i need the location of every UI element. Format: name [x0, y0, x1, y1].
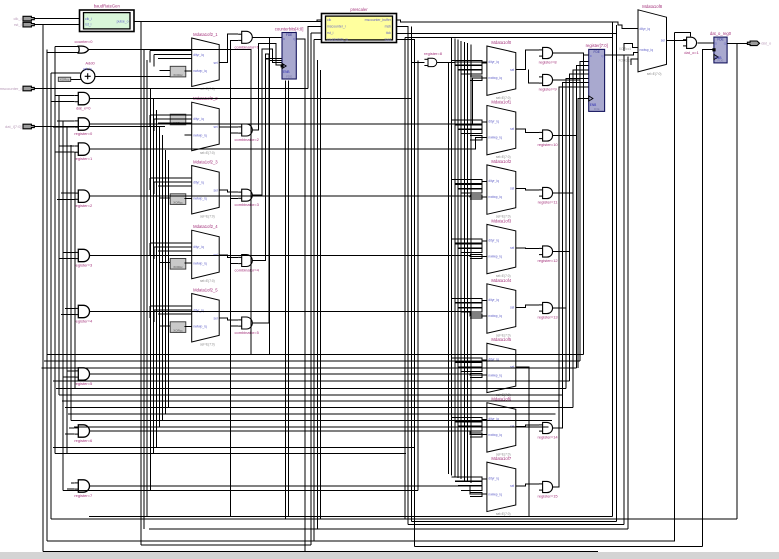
wire register=4 out to mux: [89, 312, 487, 316]
wire mux M12 in1 staple 0: [452, 417, 482, 421]
svg-text:Mdata1of8: Mdata1of8: [642, 4, 662, 9]
wire mscounter to prescaler: [308, 26, 322, 88]
mux M3 Mdata1of2_3: [192, 160, 220, 219]
svg-text:tick: tick: [386, 31, 391, 35]
svg-text:dityr_iq: dityr_iq: [193, 117, 204, 121]
wire v702: [702, 49, 704, 547]
wire register=1 out to mux: [89, 137, 487, 149]
wire counter=0 in2: [47, 52, 78, 54]
svg-text:counterbits_w: counterbits_w: [327, 38, 348, 42]
and-gate register=8 middle: [424, 51, 443, 67]
svg-text:msb: msb: [385, 25, 392, 29]
wire bundle v147: [146, 60, 148, 517]
svg-text:register=5: register=5: [74, 381, 93, 386]
wire mux M9 in1 staple 2: [458, 249, 482, 253]
svg-text:sel=E(7:0): sel=E(7:0): [200, 214, 215, 218]
wire v288: [288, 81, 290, 517]
svg-text:sel=E(7:0): sel=E(7:0): [200, 279, 215, 283]
wire feedback bus v5: [463, 42, 465, 481]
svg-text:FDE: FDE: [286, 33, 292, 37]
svg-text:sel: sel: [510, 127, 514, 131]
wire feedback y395: [59, 394, 563, 396]
svg-text:Mdata1of2_3: Mdata1of2_3: [193, 160, 218, 165]
wire mux M1 tap v2: [153, 55, 155, 67]
wire mux M8 in1 staple 0: [452, 180, 482, 184]
wire trmux out: [667, 39, 687, 41]
wire bundle v165: [165, 150, 167, 414]
svg-text:nwlwp_iq: nwlwp_iq: [193, 197, 207, 201]
wire prescaler rst pin: [311, 32, 322, 34]
svg-text:mscounter_buffer: mscounter_buffer: [365, 18, 392, 22]
wire mux M2 in1 c: [158, 122, 192, 124]
wire combinator 1 out to counterbits D1: [252, 44, 281, 130]
wire mux M1 in1 b: [154, 54, 192, 56]
wire mux M1 cbox: [185, 70, 192, 72]
wire mux M2 out b: [231, 130, 239, 133]
wire mux M2 tap v1: [149, 115, 151, 127]
svg-text:XORcc: XORcc: [173, 265, 183, 269]
wire mux M12 in1 staple 2: [458, 427, 482, 431]
wire mux M5 cbox feed: [160, 325, 171, 327]
wire mux M8 in1 staple 1: [455, 184, 482, 188]
svg-text:sel: sel: [213, 61, 217, 65]
svg-text:counter=0: counter=0: [75, 39, 94, 44]
svg-text:dat_i[7:0]: dat_i[7:0]: [5, 124, 21, 129]
svg-text:Add0: Add0: [85, 61, 95, 66]
svg-text:dityr_iq: dityr_iq: [640, 27, 651, 31]
svg-text:register=6: register=6: [74, 438, 93, 443]
wire bottom 516: [89, 516, 613, 518]
wire register=4 in2: [61, 314, 75, 316]
wire vbus 51: [50, 73, 52, 519]
svg-text:sel=E(7:0): sel=E(7:0): [496, 512, 511, 516]
svg-text:dat_o=1: dat_o=1: [684, 50, 699, 55]
wire mux M6 out b: [529, 70, 540, 84]
wire bottom 551: [43, 551, 598, 553]
mux M11 Mdata1of5: [487, 337, 516, 397]
wire vbus 67: [66, 127, 68, 454]
svg-text:qnt_in: qnt_in: [83, 67, 92, 71]
svg-text:Mdata1of2_4: Mdata1of2_4: [193, 224, 218, 229]
wire bottom 540: [47, 540, 675, 542]
wire feedback bus v7: [470, 44, 472, 483]
svg-text:dityr_iq: dityr_iq: [193, 53, 204, 57]
svg-text:prescaler: prescaler: [350, 7, 368, 12]
svg-text:Mdata1of1: Mdata1of1: [491, 100, 511, 105]
svg-text:Mdata1of2: Mdata1of2: [491, 159, 511, 164]
wire v285: [285, 81, 287, 519]
wire v411: [410, 26, 412, 521]
svg-text:nwlwp_iq: nwlwp_iq: [193, 325, 207, 329]
svg-text:rst_i: rst_i: [327, 31, 334, 35]
wire feedback y354: [47, 354, 584, 356]
and-gate register=0: [74, 118, 93, 136]
and-gate combinator=2: [235, 124, 260, 142]
svg-text:nwlwp_iq: nwlwp_iq: [488, 373, 502, 377]
wire bundle v150: [150, 89, 152, 491]
svg-text:dityr_iq: dityr_iq: [488, 476, 499, 480]
svg-text:clk_i: clk_i: [85, 17, 92, 21]
wire v675: [674, 32, 676, 540]
and-gate register=4: [74, 305, 93, 323]
junction at counterbits clock pin: [281, 64, 284, 67]
svg-text:FDE: FDE: [717, 38, 723, 42]
wire register=3 in2: [59, 258, 75, 260]
wire register=2 in1: [61, 192, 75, 194]
wire mux M7 in2 staple: [470, 136, 482, 140]
svg-text:Mdata1of5: Mdata1of5: [491, 337, 511, 342]
wire mux M4 cbox feed: [160, 262, 171, 264]
svg-text:dityr_iq: dityr_iq: [193, 245, 204, 249]
constant block for mux M3: [170, 194, 186, 205]
wire dat_x=0 in2: [51, 101, 75, 103]
wire register=6 in2: [65, 433, 75, 435]
wire mux M9 in1 pin: [482, 240, 487, 242]
register U3 counterbits[4:0]: [275, 26, 304, 79]
and-gate register=13: [538, 302, 559, 319]
wire mux M6 in2 staple: [470, 76, 482, 80]
and-gate combinator=3: [235, 189, 260, 207]
wire bundle v144: [143, 49, 145, 529]
output port dat_o: [747, 41, 759, 46]
svg-text:sel: sel: [510, 306, 514, 310]
wire register=6 in1: [69, 427, 75, 429]
svg-text:register[7:0]: register[7:0]: [586, 43, 608, 48]
and-gate register=5: [74, 368, 93, 386]
register U5 dat_o_reg0: [710, 31, 732, 63]
and-gate register=7: [74, 480, 93, 498]
wire mux M1 out: [219, 34, 238, 62]
svg-text:register=8: register=8: [539, 59, 558, 64]
mux M8 Mdata1of2: [487, 159, 516, 219]
wire register=0 out to mux: [89, 78, 487, 124]
wire prescaler out2: [397, 26, 409, 524]
wire register=9 out to register D1: [553, 61, 589, 80]
svg-text:combinator=2: combinator=2: [235, 137, 260, 142]
svg-text:clk: clk: [327, 18, 331, 22]
and-gate register=8: [539, 47, 558, 64]
wire prescaler clk pin jog: [317, 20, 322, 22]
junction at dat_o_reg0 D input: [712, 48, 715, 51]
wire register=14 out to register D6: [553, 83, 589, 429]
wire mux M7 in1 staple 0: [452, 120, 482, 124]
wire combinator 3 out to counterbits D3: [252, 54, 281, 261]
wire mux M1 out down: [229, 63, 231, 517]
svg-text:dityr_iq: dityr_iq: [488, 179, 499, 183]
adder Add0: [81, 61, 96, 84]
mux M12 Mdata1of6: [487, 397, 516, 457]
wire feedback y401: [62, 400, 559, 402]
register U4 register[7:0]: [586, 43, 608, 111]
wire mux M1 tap v1: [149, 51, 151, 63]
input port mscounter_i: [23, 86, 34, 91]
svg-text:sel=E(7:0): sel=E(7:0): [200, 342, 215, 346]
svg-text:nwlwp_iq: nwlwp_iq: [488, 76, 502, 80]
wire mux M6 in1 pin: [482, 62, 487, 64]
svg-text:register=1: register=1: [74, 156, 93, 161]
and-gate combinator=4: [235, 255, 260, 273]
wire mux M10 in1 staple 1: [455, 303, 482, 307]
svg-text:rst_i: rst_i: [14, 22, 22, 27]
svg-text:dat_o_reg0: dat_o_reg0: [710, 31, 732, 36]
wire bundle v153: [153, 99, 155, 454]
wire mux M5 tap v1: [149, 306, 151, 318]
wire mux M12 in1 staple 1: [455, 422, 482, 426]
wire v269 through: [269, 38, 271, 355]
svg-text:clk_i: clk_i: [13, 16, 21, 21]
wire staple K1: [624, 43, 638, 51]
wire register=1 in1: [59, 145, 75, 147]
svg-text:register=15: register=15: [538, 493, 559, 498]
mux M14 Mdata1of8: [638, 4, 667, 76]
wire adder out: [95, 75, 170, 77]
svg-text:Mdata1of4: Mdata1of4: [491, 278, 511, 283]
input port rst_i: [23, 22, 34, 27]
svg-text:combinator=4: combinator=4: [235, 268, 260, 273]
wire long 37.7: [405, 37, 613, 39]
wire mux M4 cbox: [185, 262, 192, 264]
svg-text:sel: sel: [213, 188, 217, 192]
svg-text:nwlwp_iq: nwlwp_iq: [193, 261, 207, 265]
wire combinator 2 out to counterbits D2: [252, 49, 281, 195]
wire ladder extension 3: [572, 193, 574, 408]
wire mux M11 in1 staple 2: [458, 367, 482, 371]
wire v311: [310, 33, 312, 545]
wire vbus 75: [74, 152, 76, 388]
wire v405: [404, 38, 406, 519]
wire mscounter_i run: [34, 88, 308, 90]
wire mux M3 cbox: [185, 198, 192, 200]
mux M13 Mdata1of7: [487, 456, 516, 516]
svg-text:register=14: register=14: [538, 434, 559, 439]
wire mux M3 out b: [231, 193, 239, 198]
svg-text:register=12: register=12: [538, 258, 559, 263]
svg-text:FDE: FDE: [286, 75, 292, 79]
svg-text:sel=E(7:0): sel=E(7:0): [200, 151, 215, 155]
constant block for mux M1: [170, 66, 186, 77]
wire bottom 521: [411, 521, 616, 523]
wire mux M4 out b: [231, 258, 239, 264]
wire vbus 71: [70, 145, 72, 421]
wire v320: [320, 70, 322, 519]
wire bottom 545: [141, 544, 311, 546]
wire mux M1 in1 c: [158, 58, 192, 60]
wire mux M3 in1 c: [158, 185, 192, 187]
wire mux M3 in1 a: [150, 177, 192, 179]
wire counterbits Q: [296, 39, 305, 552]
svg-text:register=10: register=10: [538, 142, 559, 147]
svg-text:register=3: register=3: [74, 263, 93, 268]
wire mux M12 in1 pin: [482, 419, 487, 421]
wire mux M8 out: [516, 189, 539, 190]
svg-text:register=8: register=8: [424, 51, 443, 56]
wire register=12 out to register D4: [553, 74, 589, 252]
wire mux M7 in1 pin: [482, 121, 487, 123]
svg-text:counterbits[4:0]: counterbits[4:0]: [275, 26, 304, 31]
svg-text:dityr_iq: dityr_iq: [488, 120, 499, 124]
wire mux M11 in1 pin: [482, 359, 487, 361]
svg-text:XORcc1: XORcc1: [619, 47, 632, 51]
svg-text:mscounter_i: mscounter_i: [0, 86, 22, 91]
wire h447: [53, 447, 415, 449]
wire mux M3 tap v1: [149, 178, 151, 190]
wire register=5 out to mux: [89, 374, 487, 375]
svg-text:Mdata1of0: Mdata1of0: [491, 40, 511, 45]
wire register=2 in2: [57, 198, 75, 200]
wire mux M6 in1 staple 1: [455, 65, 482, 69]
wire mux M9 in2 staple: [470, 255, 482, 259]
wire register=5 in1: [67, 370, 75, 372]
bottom scrollbar strip: [0, 552, 779, 559]
wire ff datao in2: [703, 49, 714, 51]
wire bundle v168: [168, 160, 170, 408]
wire mux M1 in1 a: [150, 50, 192, 52]
wire feedback bus v6: [467, 43, 469, 482]
wire mux M10 in2 staple: [470, 314, 482, 318]
wire bundle v156: [156, 110, 158, 448]
svg-text:XORcc: XORcc: [60, 77, 70, 81]
wire mux M7 in1 staple 2: [458, 130, 482, 134]
wire adder const in: [71, 78, 81, 80]
wire baudRateGen pulse_o: [134, 21, 322, 23]
wire v627: [627, 57, 629, 530]
wire feedback y388: [56, 388, 566, 390]
svg-text:dityr_iq: dityr_iq: [488, 298, 499, 302]
svg-text:dat_x=0: dat_x=0: [76, 106, 91, 111]
wire mux M5 in1 b: [154, 309, 192, 311]
wire mux M10 out: [516, 305, 539, 308]
wire mux M5 tap v2: [153, 310, 155, 322]
svg-text:nwlwp_iq: nwlwp_iq: [488, 433, 502, 437]
wire ladder extension 0: [583, 53, 585, 355]
svg-text:sel: sel: [510, 187, 514, 191]
wire feedback y407: [65, 407, 573, 409]
wire K2 feed: [631, 59, 638, 65]
svg-text:FDE: FDE: [718, 58, 724, 62]
svg-text:nwlwp_iq: nwlwp_iq: [193, 133, 207, 137]
wire mux M3 cbox feed: [160, 197, 171, 199]
wire feedback y427: [74, 426, 549, 428]
svg-text:nwlwp_iq: nwlwp_iq: [640, 48, 654, 52]
wire register=7 in2: [67, 488, 75, 490]
svg-text:baudRateGen: baudRateGen: [94, 4, 121, 9]
wire mux M2 cbox feed: [160, 118, 171, 120]
wire register=3 out to mux: [89, 255, 487, 258]
wire mux M9 out: [516, 247, 539, 249]
wire register=15 out to register D7: [553, 87, 589, 487]
wire mux M6 out: [516, 50, 539, 70]
wire bundle v159: [159, 127, 161, 428]
svg-text:nwlwp_iq: nwlwp_iq: [193, 69, 207, 73]
svg-text:register=13: register=13: [538, 314, 559, 319]
svg-text:register=9: register=9: [539, 86, 558, 91]
wire mux M2 cbox: [185, 134, 192, 136]
svg-text:load: load: [385, 38, 392, 42]
wire v624: [623, 56, 625, 525]
wire vbus 47: [46, 50, 48, 541]
wire mux M8 in1 pin: [482, 181, 487, 183]
wire counter=0 out: [89, 49, 251, 354]
wire vbus 63: [62, 121, 64, 491]
wire register=4 in1: [65, 307, 75, 309]
svg-text:Mdata1of7: Mdata1of7: [491, 456, 511, 461]
svg-text:combinator=3: combinator=3: [235, 202, 260, 207]
wire mux M2 in1 a: [150, 114, 192, 116]
wire dat_x=0 out: [89, 98, 411, 100]
wire mux M3 out: [219, 190, 238, 192]
wire adder in: [51, 72, 81, 74]
wire register=2 out to mux: [89, 195, 487, 198]
wire feedback y361: [44, 360, 580, 362]
wire trmux v616: [616, 25, 618, 521]
wire register=11 out to register D3: [553, 70, 589, 193]
wire mux M5 in1 a: [150, 305, 192, 307]
wire ladder extension 2: [576, 136, 578, 369]
wire feedback y381: [53, 380, 570, 382]
and-gate register=1: [74, 143, 93, 161]
svg-text:FDE: FDE: [594, 50, 600, 54]
svg-text:Mdata1of2_1: Mdata1of2_1: [193, 32, 218, 37]
svg-text:pulse_o: pulse_o: [117, 20, 129, 24]
wire mux M6 in1 staple 2: [458, 70, 482, 74]
wire vbus 55: [54, 47, 56, 454]
wire ladder extension 1: [579, 80, 581, 361]
wire feedback bus v3: [457, 40, 459, 478]
wire mux M13 in1 staple 1: [455, 482, 482, 486]
wire mux M10 in1 pin: [482, 300, 487, 302]
mux M2 Mdata1of2_2: [192, 96, 220, 155]
svg-text:XORcc: XORcc: [173, 200, 183, 204]
mux M7 Mdata1of1: [487, 100, 516, 160]
svg-text:dat_o: dat_o: [761, 41, 772, 46]
wire mux M4 out: [219, 255, 238, 258]
wire mux M5 in1 c: [158, 313, 192, 315]
wire loop register=8 gate: [411, 61, 424, 63]
wire mux M11 in1 staple 0: [452, 358, 482, 362]
wire v317: [317, 60, 319, 529]
and-gate dat_o=1: [683, 37, 700, 55]
mux M10 Mdata1of4: [487, 278, 516, 338]
wire rst_i branch down: [42, 25, 44, 552]
wire mux M2 tap v2: [153, 119, 155, 131]
wire mux M4 in1 b: [154, 246, 192, 248]
svg-text:Mdata1of2_5: Mdata1of2_5: [193, 288, 218, 293]
and-gate register=2: [74, 190, 93, 208]
wire feedback bus v4: [460, 41, 462, 479]
wire mux M13 out: [516, 484, 539, 486]
wire mux M6 in1 staple 0: [452, 61, 482, 65]
wire bundle v162: [162, 135, 164, 421]
wire mux M7 out: [516, 129, 539, 132]
wire mux M2 out: [219, 126, 238, 128]
wire h453: [55, 453, 406, 455]
wire prescaler out1 to Mdata1of8: [397, 20, 639, 29]
wire feedback bus v0: [447, 62, 449, 474]
svg-text:sel: sel: [213, 316, 217, 320]
mux M4 Mdata1of2_4: [192, 224, 220, 283]
wire mux M8 in2 staple: [470, 195, 482, 199]
wire feedback y368: [42, 367, 577, 369]
mux M9 Mdata1of3: [487, 218, 516, 278]
svg-text:dityr_iq: dityr_iq: [193, 180, 204, 184]
wire mux M4 tap v1: [149, 243, 151, 255]
wire prescaler counterbits pin: [314, 38, 322, 40]
input port clk_i: [23, 16, 34, 21]
wire mux M8 in1 staple 2: [458, 189, 482, 193]
constant block for mux M2: [170, 114, 186, 125]
and-gate register=11: [538, 187, 559, 204]
wire trmux out loop: [675, 32, 691, 36]
